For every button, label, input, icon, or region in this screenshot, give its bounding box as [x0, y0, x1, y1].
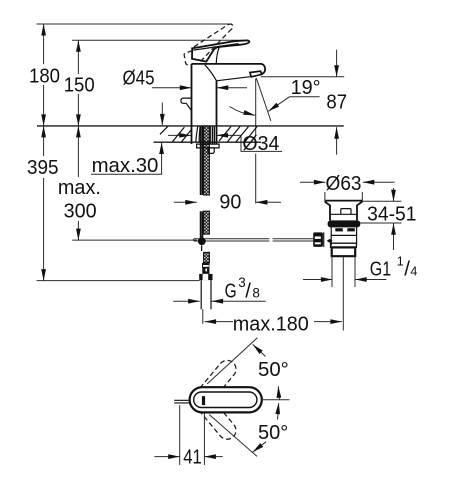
svg-text:41: 41	[183, 445, 202, 468]
svg-text:/: /	[245, 279, 251, 302]
svg-text:8: 8	[252, 285, 260, 300]
svg-text:1: 1	[397, 255, 404, 269]
svg-text:Ø34: Ø34	[242, 132, 279, 155]
svg-text:19°: 19°	[291, 76, 321, 99]
svg-text:180: 180	[29, 64, 60, 87]
svg-text:395: 395	[27, 156, 59, 179]
svg-text:90: 90	[219, 191, 241, 214]
svg-text:/: /	[404, 258, 410, 281]
svg-text:Ø63: Ø63	[326, 172, 362, 195]
svg-text:50°: 50°	[258, 358, 289, 381]
svg-text:87: 87	[326, 91, 347, 114]
svg-text:50°: 50°	[258, 421, 288, 444]
svg-text:G: G	[225, 279, 237, 302]
svg-text:150: 150	[64, 73, 95, 96]
svg-text:300: 300	[64, 200, 97, 223]
svg-text:max.30: max.30	[92, 154, 159, 177]
svg-text:4: 4	[410, 265, 417, 279]
svg-text:34-51: 34-51	[367, 202, 416, 225]
svg-text:Ø45: Ø45	[123, 67, 155, 90]
svg-text:G1: G1	[370, 258, 391, 281]
svg-text:max.180: max.180	[233, 312, 309, 335]
svg-text:max.: max.	[58, 176, 101, 199]
